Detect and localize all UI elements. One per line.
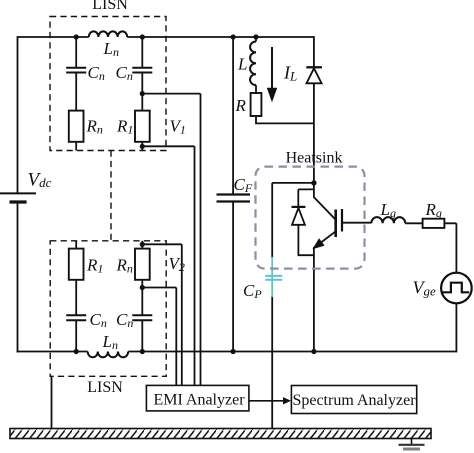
wire IGBT collector — [314, 183, 336, 220]
inductor Ln (lower LISN) — [88, 352, 128, 358]
Spectrum Analyzer box — [291, 386, 416, 414]
capacitor Cn lower-right — [132, 315, 152, 320]
LISN box lower (dashed) — [50, 241, 166, 376]
capacitor Cn lower-left — [66, 315, 86, 320]
wire sense tap D — [142, 288, 176, 386]
wire sense tap A — [142, 94, 200, 386]
wire top rail — [18, 36, 314, 38]
transistor Q1 IGBT body bar — [334, 210, 337, 238]
wire sense tap B — [142, 146, 194, 385]
wire Vge to rail — [455, 303, 457, 352]
wire IGBT emitter diagonal — [321, 231, 336, 243]
junction V2 tap low — [140, 285, 145, 290]
wire Lg to Rg — [405, 222, 422, 224]
battery Vdc — [0, 192, 36, 194]
capacitor CP (cyan) — [265, 257, 282, 297]
node collector — [311, 180, 316, 185]
junction V2 tap high — [140, 242, 145, 247]
resistor R1 lower — [69, 249, 84, 280]
diode D2 triangle — [292, 208, 305, 225]
junction V1 tap low — [140, 144, 145, 149]
junction V1 tap high — [140, 91, 145, 96]
inductor Lg — [371, 217, 405, 223]
wire diode branch — [313, 36, 315, 183]
diode D2 bar — [292, 206, 306, 208]
wire load branch bottom — [256, 116, 314, 123]
capacitor Cn upper-right — [132, 68, 152, 73]
junction bottom rail / CF branch — [231, 349, 236, 354]
svg-text:Spectrum Analyzer: Spectrum Analyzer — [292, 392, 416, 409]
capacitor Cn upper-left — [66, 68, 86, 73]
resistor Rg — [423, 219, 445, 228]
EMI Analyzer box — [146, 385, 249, 411]
current arrow IL — [268, 47, 277, 101]
svg-text:EMI Analyzer: EMI Analyzer — [153, 392, 245, 409]
wire LISN ground stub — [51, 376, 53, 428]
capacitor CF — [217, 195, 251, 202]
wire emitter down — [313, 247, 315, 352]
wire bottom rail — [17, 351, 457, 353]
arrowhead EMI to Spectrum — [283, 397, 291, 404]
resistor Rn lower — [135, 249, 150, 280]
LISN box upper (dashed) — [50, 17, 166, 151]
resistor R (load) — [251, 93, 262, 116]
wire lower LISN left branch — [75, 241, 77, 249]
junction bottom rail / Cn right — [140, 349, 145, 354]
wire sense tap C — [142, 244, 182, 385]
wire upper LISN left branch — [75, 37, 77, 67]
resistor R1 upper — [135, 111, 150, 142]
wire lower LISN right branch — [141, 241, 143, 249]
earth ground symbol — [411, 439, 413, 445]
source Vge circle — [441, 273, 472, 304]
svg-text:Heatsink: Heatsink — [286, 150, 343, 167]
resistor Rn upper — [69, 111, 84, 142]
diode D2 (antiparallel) top lead — [298, 189, 314, 206]
junction top rail / load branch — [253, 34, 258, 39]
svg-text:LISN: LISN — [87, 379, 123, 396]
wire CF branch — [232, 37, 234, 352]
junction bottom rail / emitter — [311, 349, 316, 354]
junction top rail / Cn left — [74, 34, 79, 39]
dashed chassis link — [110, 151, 112, 241]
wire Rg to Vge — [444, 223, 456, 272]
junction top rail / CF branch — [231, 34, 236, 39]
wire CP tap from collector — [272, 183, 314, 258]
wire L to R — [255, 85, 257, 93]
svg-text:R: R — [235, 96, 247, 115]
arrow EMI to Spectrum — [249, 400, 284, 402]
heatsink box (dashed rounded) — [256, 167, 365, 269]
junction bottom rail / Cn left — [74, 349, 79, 354]
transistor Q1 IGBT gate bar — [341, 209, 343, 232]
wire left DC bus vertical — [17, 36, 19, 352]
inductor L (load) — [250, 42, 256, 86]
ground plane — [10, 429, 431, 439]
wire upper LISN right branch — [141, 37, 143, 67]
diode D (freewheel top) — [306, 66, 322, 68]
svg-text:L: L — [237, 55, 247, 74]
emitter arrowhead — [310, 238, 325, 253]
svg-text:LISN: LISN — [92, 0, 128, 13]
junction top rail / Cn right — [140, 34, 145, 39]
wire gate lead — [342, 222, 371, 224]
inductor Ln (upper LISN) — [89, 31, 127, 37]
diode D2 bottom lead — [298, 225, 314, 255]
wire load branch top — [255, 37, 257, 42]
wire CP to ground plane — [271, 296, 273, 428]
source Vge pulse symbol — [442, 283, 469, 293]
